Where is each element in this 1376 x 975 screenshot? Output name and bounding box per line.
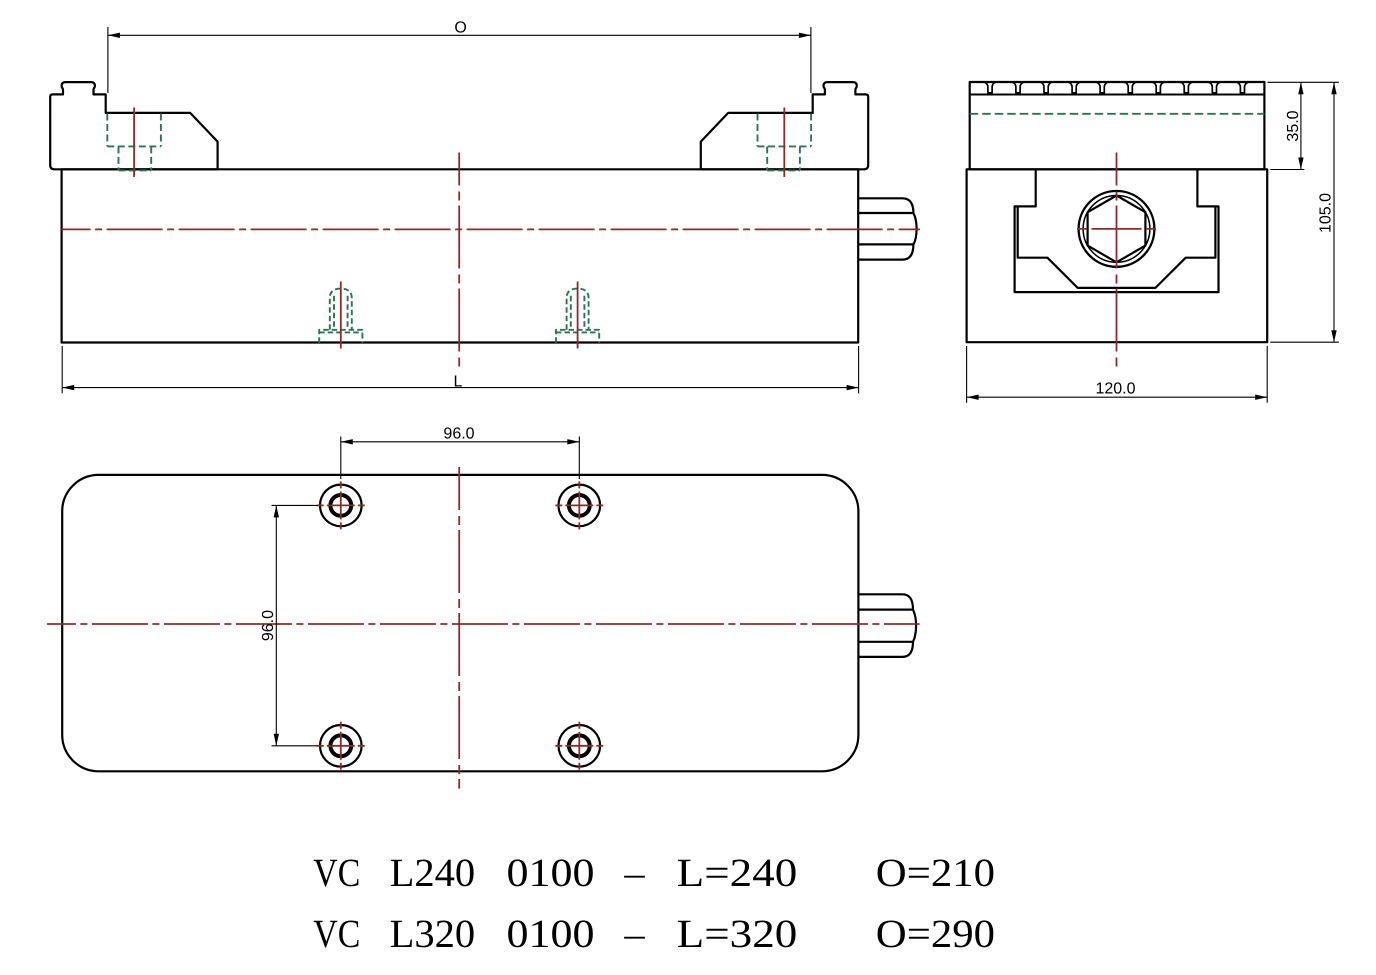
svg-text:–: – — [623, 850, 645, 895]
centerline left T-nut — [133, 108, 135, 178]
dimension O — [108, 27, 811, 93]
T-slot nut right jaw (hidden, green dashed) — [758, 114, 812, 171]
svg-text:VC: VC — [313, 911, 360, 956]
svg-text:VC: VC — [313, 850, 360, 895]
dimension 35.0 — [1268, 82, 1339, 169]
svg-text:96.0: 96.0 — [260, 610, 277, 641]
hex screw head (front view, right) — [858, 198, 914, 259]
svg-text:35.0: 35.0 — [1285, 110, 1302, 141]
dimension 105.0 — [1270, 82, 1339, 342]
mounting hole top-left (plan view) — [317, 481, 365, 529]
svg-text:L240: L240 — [390, 850, 476, 895]
vertical centerline (front view) — [458, 153, 460, 369]
vertical centerline (side view) — [1116, 153, 1118, 369]
mounting hole bottom-right (plan view) — [555, 722, 603, 770]
svg-text:O=290: O=290 — [876, 911, 995, 956]
mounting hole top-right (plan view) — [555, 481, 603, 529]
T-slot nut left jaw (hidden, green dashed) — [107, 114, 161, 171]
dimension L — [62, 346, 858, 393]
screw boss inner circle (side view) — [1083, 196, 1150, 263]
svg-text:L=320: L=320 — [677, 911, 798, 956]
screw boss outer circle (side view) — [1079, 191, 1155, 267]
hex screw head (plan view, right) — [858, 594, 913, 657]
horizontal centerline (plan view) — [47, 623, 920, 625]
svg-text:0100: 0100 — [507, 911, 595, 956]
mounting hole bottom-left (plan view) — [317, 722, 365, 770]
base plate outline (plan view) — [62, 475, 858, 771]
svg-text:L320: L320 — [390, 911, 476, 956]
mounting stud right (hidden, green dashed) — [556, 289, 599, 343]
dimension 120.0 — [967, 346, 1268, 403]
svg-text:L=240: L=240 — [677, 850, 798, 895]
jaw insert hidden line (green dashed) — [970, 113, 1265, 115]
vice body (front view) — [62, 169, 859, 342]
horizontal centerline (front view) — [62, 228, 920, 230]
svg-text:105.0: 105.0 — [1318, 193, 1335, 233]
svg-text:–: – — [623, 911, 645, 956]
svg-text:96.0: 96.0 — [443, 426, 474, 443]
centerline right stud — [577, 282, 579, 349]
svg-text:O: O — [454, 20, 466, 37]
serration grooves (side view jaw top) — [985, 82, 1249, 93]
serration line (side view jaw top) — [970, 94, 1265, 96]
svg-text:120.0: 120.0 — [1095, 380, 1135, 397]
T-slot pocket inner contour (side view) — [1018, 206, 1216, 288]
vice body (side view) — [967, 169, 1268, 342]
centerline right T-nut — [783, 108, 785, 178]
right jaw (front view) — [701, 82, 868, 169]
T-slot pocket outer contour (side view) — [1015, 169, 1219, 292]
vertical centerline (plan view) — [458, 467, 460, 789]
dimension 96.0 horizontal (plan view) — [341, 437, 580, 480]
dimension 96.0 vertical (plan view) — [272, 505, 318, 745]
left jaw (front view) — [50, 82, 217, 169]
svg-text:L: L — [453, 373, 462, 390]
centerline left stud — [340, 282, 342, 349]
svg-text:0100: 0100 — [507, 850, 595, 895]
jaw block (side view) — [970, 82, 1265, 169]
hex socket (side view) — [1088, 196, 1146, 263]
mounting stud left (hidden, green dashed) — [319, 289, 362, 343]
horizontal centerline (side view) — [1077, 228, 1156, 230]
svg-text:O=210: O=210 — [876, 850, 995, 895]
